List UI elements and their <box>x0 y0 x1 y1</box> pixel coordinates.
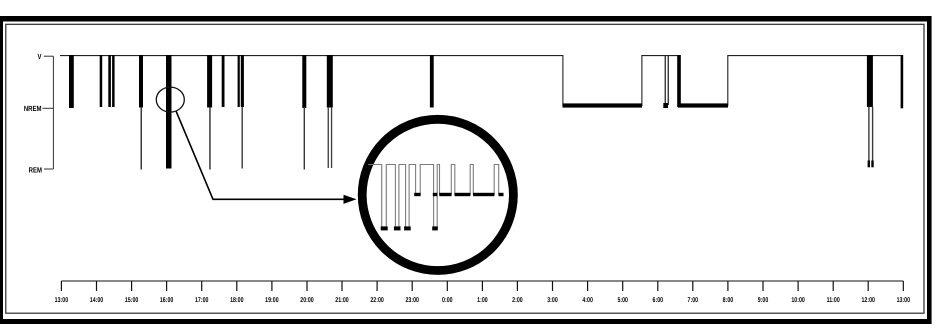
bar B2 <box>100 55 103 107</box>
spike S1 line a <box>665 55 666 105</box>
bar B19 REM blob b <box>871 161 873 168</box>
y-axis bracket vertical line <box>52 56 54 169</box>
magnifier big circle <box>362 119 513 270</box>
spike S1 line b <box>668 55 669 105</box>
svg-text:19:00: 19:00 <box>265 297 279 304</box>
svg-text:14:00: 14:00 <box>90 297 104 304</box>
svg-text:17:00: 17:00 <box>195 297 209 304</box>
mini bottom blob D <box>432 226 438 230</box>
svg-text:1:00: 1:00 <box>477 297 488 304</box>
mini mid dwell 3 <box>473 193 494 196</box>
svg-text:13:00: 13:00 <box>55 297 69 304</box>
bar B1 <box>69 55 74 108</box>
bar B19 thick part <box>867 55 873 107</box>
svg-text:V: V <box>37 52 41 61</box>
NREM dwell segment 2 <box>678 103 728 107</box>
bar B4 <box>112 55 115 107</box>
bar B11 thin REM continuation <box>304 107 305 170</box>
mini mid dwell D <box>414 193 420 196</box>
bar B9 <box>238 55 240 107</box>
bar B19 thin continuation b <box>872 107 873 161</box>
NREM dwell segment 1 <box>563 103 643 107</box>
y-axis tick REM <box>44 168 53 170</box>
bar B6 full to REM <box>166 55 172 169</box>
svg-text:10:00: 10:00 <box>791 297 805 304</box>
svg-text:0:00: 0:00 <box>442 297 453 304</box>
bar B11 thick part <box>302 55 306 108</box>
svg-text:13:00: 13:00 <box>897 297 911 304</box>
svg-text:NREM: NREM <box>24 104 42 113</box>
svg-text:11:00: 11:00 <box>827 297 840 304</box>
svg-text:12:00: 12:00 <box>861 297 875 304</box>
bar B7 thick part <box>207 55 212 108</box>
bar B17 thick <box>677 55 681 107</box>
svg-text:15:00: 15:00 <box>125 297 139 304</box>
svg-text:21:00: 21:00 <box>335 297 349 304</box>
svg-text:20:00: 20:00 <box>300 297 314 304</box>
bar B19 thin continuation a <box>868 107 869 161</box>
bar B12 thick part <box>327 55 333 108</box>
outer frame left band <box>0 16 3 324</box>
svg-text:7:00: 7:00 <box>688 297 699 304</box>
mini mid dwell 4 <box>499 193 504 196</box>
svg-text:16:00: 16:00 <box>160 297 174 304</box>
bar B10 thick part <box>241 55 244 107</box>
bar B8 <box>222 55 225 107</box>
mini bottom blob C <box>404 226 411 230</box>
svg-text:4:00: 4:00 <box>582 297 593 304</box>
bar B20 <box>901 55 904 108</box>
y-axis tick V <box>44 55 54 57</box>
bar B13 <box>430 55 434 108</box>
mini mid dwell 2 <box>455 193 471 196</box>
x axis ticks and labels <box>61 281 903 291</box>
mini bottom blob B <box>394 226 401 230</box>
svg-text:2:00: 2:00 <box>512 297 523 304</box>
svg-text:9:00: 9:00 <box>758 297 769 304</box>
svg-text:8:00: 8:00 <box>723 297 734 304</box>
mini bottom blob A <box>381 226 388 230</box>
svg-text:3:00: 3:00 <box>547 297 558 304</box>
outer frame bottom band <box>0 319 931 324</box>
svg-text:5:00: 5:00 <box>617 297 628 304</box>
x axis line <box>61 280 903 282</box>
bar B12 thin REM continuation b <box>331 107 332 168</box>
bar B12 thin REM continuation a <box>328 107 329 168</box>
svg-text:6:00: 6:00 <box>653 297 664 304</box>
bar B7 thin REM continuation <box>209 107 211 170</box>
outer frame top band <box>0 16 931 22</box>
magnifier small circle <box>156 87 184 112</box>
mini hypnogram thin trace <box>368 165 503 228</box>
spike S1 NREM blob <box>663 103 668 108</box>
hypnogram baseline with steps <box>60 56 903 106</box>
mini mid dwell 1 <box>439 193 451 196</box>
mini mid tick E <box>433 193 438 196</box>
bar B3 <box>108 55 111 107</box>
y-axis tick NREM <box>42 107 53 109</box>
svg-text:22:00: 22:00 <box>370 297 384 304</box>
bar B19 REM blob a <box>868 161 870 168</box>
outer frame right band <box>927 16 932 324</box>
bar B10 thin REM continuation <box>242 107 243 169</box>
arrow head <box>344 195 357 204</box>
arrow shaft <box>176 111 344 199</box>
svg-text:18:00: 18:00 <box>230 297 244 304</box>
bar B5 thick part <box>139 55 143 108</box>
bar B5 thin REM continuation <box>141 107 143 170</box>
svg-text:23:00: 23:00 <box>405 297 419 304</box>
svg-text:REM: REM <box>29 165 42 174</box>
